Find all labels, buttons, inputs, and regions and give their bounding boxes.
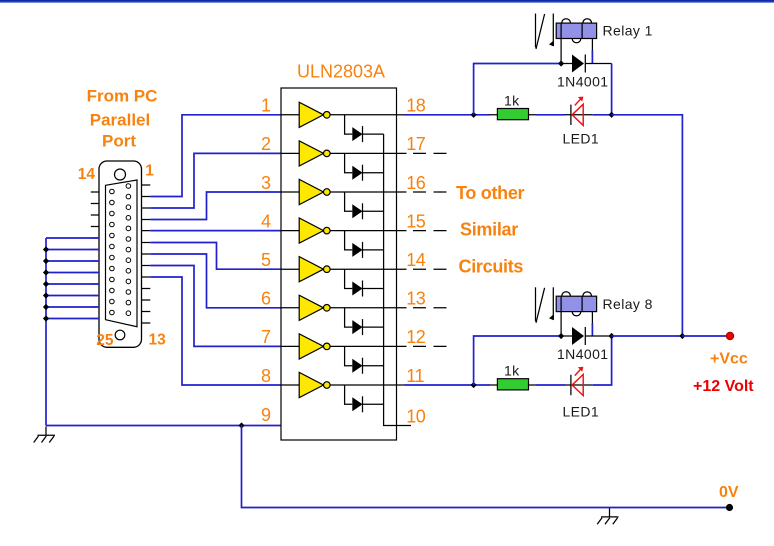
- svg-text:LED1: LED1: [563, 130, 600, 146]
- resistor 1k lead stubs: [490, 384, 536, 386]
- svg-text:1k: 1k: [504, 92, 520, 108]
- junction 0V drop node: [238, 422, 244, 428]
- connector J1 right column pin holes (1-13): [126, 184, 131, 316]
- terminal 0V: [726, 504, 733, 511]
- connector J1 insert trapezoid: [106, 180, 138, 327]
- svg-text:25: 25: [96, 332, 114, 349]
- svg-text:12: 12: [406, 327, 426, 347]
- wire W5 pin6 to IC pin5: [150, 243, 281, 270]
- diode U1 flyback 2: [345, 153, 384, 180]
- wire dashed stub pin 17 to other circuits: [397, 152, 447, 154]
- IC U1 ULN2803A box: [281, 88, 397, 440]
- connector J1 DB25 shell: [99, 161, 142, 347]
- wire LED1 to junction B1: [593, 114, 612, 116]
- relay K8 coil left lead: [560, 312, 562, 336]
- junction relay8 diode anode: [558, 333, 564, 339]
- buffer U1 channel 1: [281, 102, 397, 127]
- wire ground bus branch pin19: [46, 249, 99, 251]
- resistor 1k lead stubs: [490, 114, 536, 116]
- svg-text:+12 Volt: +12 Volt: [693, 378, 754, 395]
- LED LED1: [565, 97, 593, 126]
- svg-text:17: 17: [406, 134, 426, 154]
- ground chassis symbol left: [38, 427, 56, 436]
- diode U1 flyback 3: [345, 192, 384, 219]
- wire ground bus top branch pin18: [46, 237, 99, 239]
- junction +Vcc rail: [679, 333, 685, 339]
- svg-text:5: 5: [261, 250, 271, 270]
- relay K8 coil (Relay 8): [556, 292, 596, 316]
- wire U1 pin18 to junction A1: [405, 114, 491, 116]
- junction ground bus pin19: [43, 246, 49, 252]
- terminal +Vcc: [726, 332, 734, 340]
- junction ground bus pin20: [43, 258, 49, 264]
- wire 0V rail drop: [242, 426, 727, 508]
- ground chassis symbol right: [601, 508, 619, 517]
- svg-text:+Vcc: +Vcc: [710, 351, 748, 368]
- wire ground bus branch pin21: [46, 272, 99, 274]
- svg-text:13: 13: [149, 331, 167, 348]
- wire W3 pin4 to IC pin3: [150, 192, 281, 220]
- svg-text:10: 10: [406, 406, 426, 426]
- svg-text:Circuits: Circuits: [459, 257, 524, 277]
- buffer U1 channel 8: [281, 372, 397, 397]
- wire dashed stub pin 15 to other circuits: [397, 230, 447, 232]
- diode U1 flyback 7: [345, 346, 384, 373]
- connector J1 top mounting hole: [115, 169, 126, 180]
- connector J1 left pin stubs (pins 14-25): [91, 192, 99, 319]
- resistor R 1k body: [497, 379, 528, 390]
- wire dashed stub pin 12 to other circuits: [397, 345, 447, 347]
- svg-text:9: 9: [261, 405, 271, 425]
- IC U1 pin 10 stub: [397, 425, 412, 427]
- wire ground bus branch pin23: [46, 295, 99, 297]
- wire ground bus branch pin20: [46, 260, 99, 262]
- wire dashed stub pin 13 to other circuits: [397, 307, 447, 309]
- IC U1 pin 18 stub: [397, 114, 405, 116]
- diode U1 flyback 4: [345, 231, 384, 258]
- svg-text:From PC: From PC: [87, 87, 158, 106]
- junction A8: [471, 382, 477, 388]
- svg-text:16: 16: [406, 173, 426, 193]
- svg-text:Relay 8: Relay 8: [603, 296, 653, 312]
- connector J1 left column pin holes (14-25): [110, 189, 115, 315]
- wire dashed stub pin 14 to other circuits: [397, 268, 447, 270]
- buffer U1 channel 3: [281, 179, 397, 204]
- diode U1 flyback 5: [345, 269, 384, 296]
- svg-text:15: 15: [406, 211, 426, 231]
- svg-text:1: 1: [145, 163, 154, 180]
- svg-text:2: 2: [261, 134, 271, 154]
- wire junction B8 to +Vcc junction: [612, 335, 683, 337]
- diode 1N4001 (relay 1): [561, 55, 612, 73]
- svg-text:14: 14: [406, 250, 426, 270]
- wire junction A8 up to relay 8 diode line: [474, 336, 561, 385]
- junction A1: [471, 112, 477, 118]
- svg-text:7: 7: [261, 327, 271, 347]
- junction B8: [609, 333, 615, 339]
- wire W7 pin8 to IC pin7: [150, 266, 281, 347]
- wire resistor to LED: [536, 114, 565, 116]
- junction B1: [609, 112, 615, 118]
- svg-text:0V: 0V: [719, 484, 739, 501]
- svg-text:14: 14: [78, 166, 96, 183]
- wire dashed stub pin 16 to other circuits: [397, 191, 447, 193]
- junction ground bus pin23: [43, 292, 49, 298]
- wire relay K8 right lead to diode line: [591, 323, 593, 336]
- wire ground bus branch pin22: [46, 283, 99, 285]
- wire LED8 up to relay8 diode line: [593, 336, 612, 385]
- IC U1 pin 11 stub: [397, 384, 405, 386]
- junction ground bus pin22: [43, 281, 49, 287]
- svg-text:4: 4: [261, 211, 271, 231]
- wire U1 pin11 to junction A8: [405, 384, 491, 386]
- wire relay K1 right lead to diode line: [591, 50, 593, 63]
- wire W6 pin7 to IC pin6: [150, 254, 281, 308]
- svg-text:18: 18: [406, 96, 426, 116]
- relay K8 contact switch: [536, 287, 554, 323]
- svg-text:8: 8: [261, 366, 271, 386]
- buffer U1 channel 4: [281, 218, 397, 243]
- wire junction B1 to +Vcc rail: [612, 115, 683, 336]
- relay K1 contact switch: [536, 14, 554, 50]
- wire W2 pin3 to IC pin2: [150, 153, 281, 208]
- relay K1 coil (Relay 1): [556, 19, 596, 43]
- resistor R 1k body: [497, 109, 528, 120]
- svg-text:13: 13: [406, 289, 426, 309]
- wire relay1 cathode down to junction B1: [611, 64, 613, 115]
- wire W8 pin9 to IC pin8: [150, 277, 281, 385]
- junction ground bus pin21: [43, 269, 49, 275]
- svg-text:6: 6: [261, 289, 271, 309]
- junction relay1 diode anode: [558, 60, 564, 66]
- svg-text:1: 1: [261, 96, 271, 116]
- top window border bar: [0, 0, 774, 3]
- buffer U1 channel 7: [281, 334, 397, 359]
- wire +Vcc junction to terminal: [682, 335, 726, 337]
- buffer U1 channel 6: [281, 295, 397, 320]
- wire ground bus to ULN2803A pin 9: [46, 425, 281, 427]
- svg-text:Parallel: Parallel: [90, 110, 151, 129]
- wire resistor to LED: [536, 384, 565, 386]
- junction ground bus pin24: [43, 304, 49, 310]
- svg-text:1N4001: 1N4001: [557, 346, 608, 362]
- relay K1 coil left lead: [560, 39, 562, 64]
- svg-text:1N4001: 1N4001: [557, 74, 608, 90]
- buffer U1 channel 5: [281, 257, 397, 282]
- svg-text:ULN2803A: ULN2803A: [297, 61, 385, 81]
- svg-text:To other: To other: [456, 183, 525, 203]
- buffer U1 channel 2: [281, 141, 397, 166]
- diode U1 flyback 1: [345, 115, 384, 142]
- svg-text:Port: Port: [102, 131, 136, 150]
- svg-text:Relay 1: Relay 1: [603, 23, 653, 39]
- wire U1 common diode rail to pin 10: [384, 134, 397, 425]
- wire ground bus branch pin25: [46, 318, 99, 320]
- svg-text:LED1: LED1: [563, 404, 600, 420]
- wire W4 pin5 to IC pin4: [150, 230, 281, 232]
- connector J1 bottom mounting hole: [115, 330, 125, 340]
- LED LED1: [565, 367, 593, 396]
- wire ground bus vertical: [45, 238, 47, 426]
- wire W1 pin2 to IC pin1: [150, 115, 281, 197]
- wire ground bus branch pin24: [46, 306, 99, 308]
- relay K8 coil right lead: [591, 312, 593, 325]
- svg-text:3: 3: [261, 173, 271, 193]
- diode U1 flyback 6: [345, 308, 384, 335]
- svg-text:11: 11: [406, 366, 424, 386]
- relay K1 coil right lead: [591, 39, 593, 52]
- junction ground bus pin25: [43, 315, 49, 321]
- connector J1 right pin stubs (pins 1-13): [141, 185, 150, 323]
- wire junction A1 up to relay 1 diode line: [474, 64, 561, 115]
- svg-text:1k: 1k: [504, 363, 520, 379]
- diode 1N4001 (relay 8): [561, 327, 612, 345]
- svg-text:Similar: Similar: [460, 220, 518, 240]
- diode U1 flyback 8: [345, 385, 384, 412]
